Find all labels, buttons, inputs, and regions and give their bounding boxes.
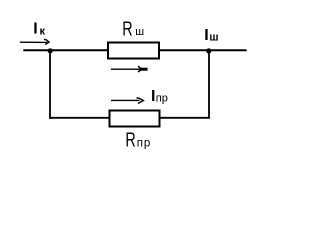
svg-text:I: I: [204, 27, 208, 44]
node: junction dot left (Iк node): [48, 48, 53, 53]
label Iк (input current): [33, 21, 45, 38]
svg-text:ш: ш: [135, 26, 144, 38]
label Iпр (device current): [151, 88, 168, 105]
svg-text:R: R: [125, 129, 135, 151]
svg-text:I: I: [151, 88, 155, 105]
arrow: current direction through Rш: [111, 66, 148, 72]
wire: bottom conductor: [49, 117, 210, 119]
resistor Rш (shunt resistor box): [108, 43, 159, 59]
arrow: current direction Iк: [20, 39, 49, 44]
arrow: current direction Iпр: [111, 98, 143, 104]
node: junction dot right (Iш node): [206, 48, 211, 53]
svg-text:пр: пр: [137, 137, 151, 149]
svg-text:ш: ш: [209, 31, 218, 43]
label Rпр (value label of bottom resistor): [125, 129, 151, 151]
label Rш (value label of shunt resistor): [122, 18, 144, 40]
svg-text:I: I: [33, 21, 37, 38]
svg-text:пр: пр: [156, 92, 168, 104]
svg-text:к: к: [40, 26, 46, 38]
wire: left vertical branch: [49, 50, 51, 119]
svg-text:R: R: [122, 18, 132, 40]
resistor Rпр (box): [110, 111, 160, 127]
wire: top conductor from Iк input to Iш output: [23, 49, 246, 51]
label Iш (shunt current): [204, 27, 218, 44]
wire: right vertical branch: [208, 51, 210, 119]
